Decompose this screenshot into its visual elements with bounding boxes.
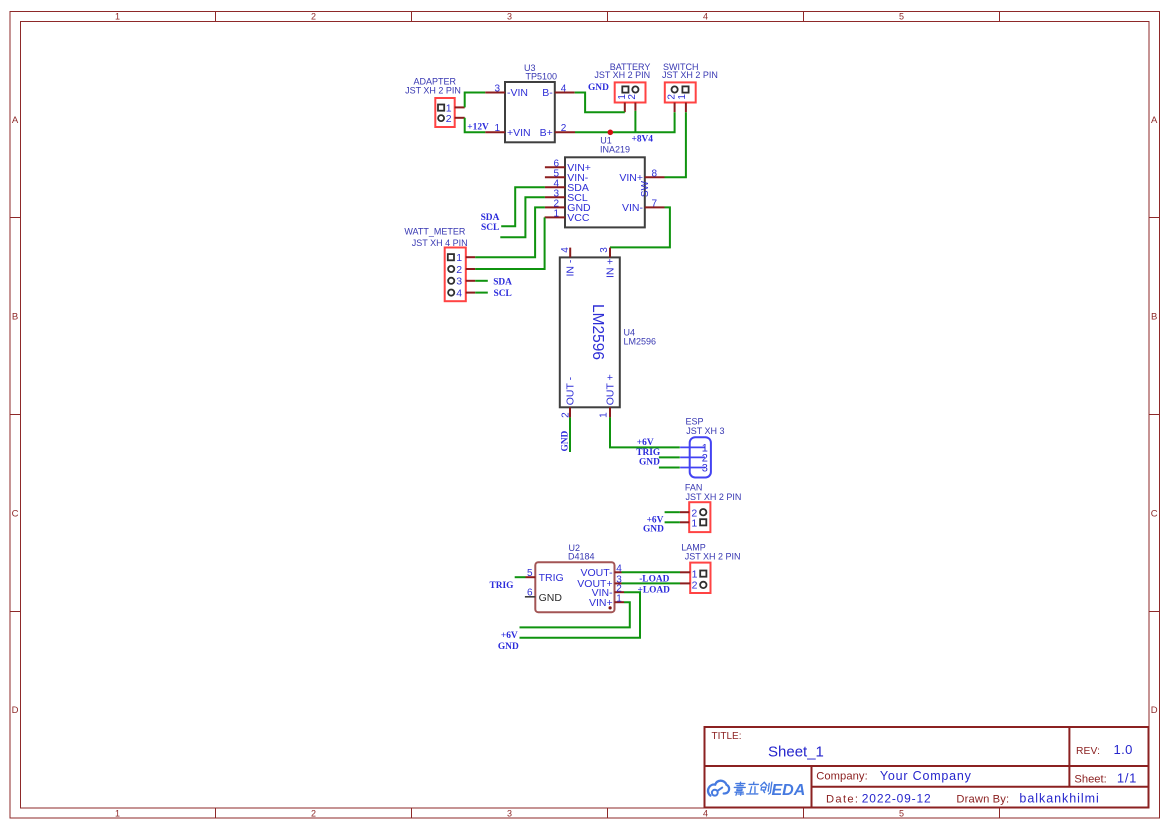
net label -LOAD	[639, 575, 669, 585]
LAMP pin 1 square	[692, 568, 707, 580]
ADAPTER pin 2 stub	[455, 117, 465, 119]
svg-text:JST XH 2 PIN: JST XH 2 PIN	[594, 70, 650, 80]
net label GND at ESP	[639, 458, 660, 468]
svg-text:-LOAD: -LOAD	[639, 575, 669, 585]
svg-text:GND: GND	[498, 642, 519, 652]
svg-text:Company:: Company:	[816, 771, 868, 783]
net label GND rail	[498, 642, 519, 652]
svg-text:3: 3	[599, 247, 610, 253]
ADAPTER pin 1 stub	[455, 106, 465, 108]
svg-text:Date:: Date:	[826, 794, 858, 806]
FAN pin 1 stub	[680, 521, 689, 523]
connector ESP JST XH 3	[686, 416, 725, 477]
svg-text:LM2596: LM2596	[624, 337, 657, 347]
svg-text:A: A	[12, 115, 19, 126]
BATTERY pin 2 stub	[634, 103, 636, 111]
net label SDA lower	[493, 277, 512, 287]
ADAPTER pin 2 circle	[438, 113, 452, 125]
BATTERY pin 2 circle	[627, 86, 638, 99]
wire +8V4 bus U3 B+ to SWITCH pin 2	[575, 112, 675, 132]
wire ADAPTER pin1 to U3 -VIN	[465, 93, 486, 108]
svg-text:8: 8	[652, 169, 658, 180]
ADAPTER pin 1 square	[438, 102, 452, 114]
svg-text:C: C	[12, 508, 19, 519]
U4 pin 1 OUT+	[599, 374, 617, 418]
svg-text:+6V: +6V	[637, 438, 654, 448]
wire WATT_METER pin 3 SDA	[475, 280, 488, 282]
svg-text:5: 5	[899, 808, 904, 818]
svg-text:+VIN: +VIN	[507, 127, 531, 139]
svg-text:B-: B-	[542, 87, 553, 99]
svg-text:+8V4: +8V4	[632, 135, 654, 145]
svg-text:2: 2	[311, 11, 316, 21]
svg-text:SCL: SCL	[481, 223, 499, 233]
svg-text:4: 4	[616, 564, 622, 575]
net label +6V at FAN	[647, 516, 664, 526]
svg-text:2: 2	[561, 123, 567, 134]
wire GND to ESP pin 3	[659, 467, 680, 469]
IC U1 INA219	[565, 136, 651, 228]
svg-text:JST XH 2 PIN: JST XH 2 PIN	[405, 86, 461, 96]
svg-text:2: 2	[692, 580, 698, 592]
svg-text:5: 5	[899, 11, 904, 21]
wire TRIG net to U2	[515, 576, 526, 578]
svg-text:1: 1	[553, 209, 559, 220]
BATTERY pin 1 square	[617, 86, 629, 99]
connector ADAPTER JST XH 2 PIN	[405, 77, 461, 127]
U3 pin 1 +VIN	[485, 123, 530, 139]
svg-text:IN -: IN -	[565, 259, 577, 276]
svg-text:1: 1	[616, 594, 622, 605]
SWITCH pin 2 stub	[674, 103, 676, 113]
svg-text:FAN: FAN	[685, 483, 703, 493]
svg-text:1: 1	[692, 568, 698, 580]
module U2 D4184	[535, 543, 614, 612]
FAN pin 2 circle	[691, 507, 706, 519]
connector FAN JST XH 2 PIN	[685, 483, 741, 532]
wire U4 OUT- GND	[569, 417, 571, 452]
SWITCH pin 2 circle	[666, 86, 677, 99]
FAN pin 2 stub	[680, 511, 689, 513]
svg-text:4: 4	[560, 247, 571, 253]
U2 pin 2 VIN-	[592, 584, 624, 600]
net label +6V at ESP	[637, 438, 654, 448]
svg-text:EDA: EDA	[772, 782, 806, 799]
svg-text:GND: GND	[561, 430, 571, 451]
wire U1 SDA to label	[501, 187, 545, 226]
svg-text:Sheet_1: Sheet_1	[768, 743, 824, 760]
svg-text:GND: GND	[539, 592, 563, 604]
svg-text:TRIG: TRIG	[539, 572, 564, 584]
IC U3 TP5100	[505, 63, 557, 142]
svg-text:C: C	[1151, 508, 1158, 519]
svg-text:ESP: ESP	[686, 416, 704, 426]
svg-text:4: 4	[561, 83, 567, 94]
U3 pin 4 B-	[542, 83, 574, 99]
U1 pin 5 VIN-	[545, 169, 589, 185]
net label SCL lower	[494, 289, 512, 299]
net label GND vertical	[561, 430, 571, 451]
U1 pin 2 GND	[545, 199, 591, 215]
svg-text:1: 1	[677, 94, 688, 100]
U2 pin 4 VOUT-	[581, 564, 623, 580]
svg-text:4: 4	[703, 808, 708, 818]
wire U1 SCL to label	[500, 197, 545, 237]
svg-text:TP5100: TP5100	[526, 72, 558, 82]
WATT_METER pin 3 circle	[448, 276, 462, 288]
svg-text:JST XH 2 PIN: JST XH 2 PIN	[685, 552, 741, 562]
U1 pin 7 VIN-	[622, 199, 665, 215]
U2 pin 5 TRIG	[526, 568, 564, 584]
WATT_METER pin 3 stub	[466, 280, 475, 282]
ESP pin 2	[680, 452, 708, 464]
svg-text:2: 2	[446, 113, 452, 125]
svg-text:VIN-: VIN-	[622, 202, 644, 214]
svg-text:REV:: REV:	[1076, 746, 1100, 757]
svg-text:4: 4	[703, 11, 708, 21]
net label +12V	[467, 122, 489, 132]
net label +8V4	[632, 135, 654, 145]
svg-text:OUT -: OUT -	[565, 376, 577, 405]
svg-text:6: 6	[527, 588, 533, 599]
wire U2 VOUT- to LAMP pin 1	[622, 571, 681, 573]
JLC EDA logo	[708, 781, 805, 799]
svg-text:1: 1	[456, 252, 462, 264]
svg-text:2: 2	[627, 94, 638, 100]
U4 pin 4 IN-	[560, 247, 577, 277]
svg-text:2: 2	[456, 264, 462, 276]
LAMP pin 2 stub	[680, 582, 690, 584]
U3 pin 2 B+	[540, 123, 575, 139]
net label GND	[588, 83, 609, 93]
U1 pin 3 SCL	[545, 189, 588, 205]
svg-text:balkankhilmi: balkankhilmi	[1019, 792, 1098, 806]
svg-text:A: A	[1151, 115, 1158, 126]
net label TRIG at ESP	[636, 448, 661, 458]
svg-text:1/1: 1/1	[1117, 770, 1137, 785]
svg-text:D: D	[1151, 705, 1158, 716]
svg-text:Drawn By:: Drawn By:	[956, 794, 1009, 806]
svg-text:5: 5	[527, 568, 533, 579]
BATTERY pin 1 stub	[624, 103, 626, 113]
U1 pin 8 VIN+	[619, 169, 664, 185]
svg-text:+6V: +6V	[501, 631, 518, 641]
wire SWITCH pin 1 to U1 VIN+	[665, 112, 686, 177]
wire U2 VIN+ to +6V rail	[520, 602, 630, 627]
wire WATT_METER pin 1 to U1 GND	[475, 207, 545, 257]
U3 pin 3 -VIN	[485, 83, 528, 99]
svg-text:IN +: IN +	[605, 258, 617, 278]
svg-text:OUT +: OUT +	[605, 374, 617, 405]
svg-text:1: 1	[691, 517, 697, 529]
WATT_METER pin 2 circle	[448, 264, 462, 276]
svg-text:+12V: +12V	[467, 122, 489, 132]
svg-text:JST XH 3: JST XH 3	[686, 426, 724, 436]
U2 pin 3 VOUT+	[577, 575, 622, 591]
connector BATTERY JST XH 2 PIN	[594, 62, 650, 103]
wire ADAPTER pin2 to U3 +VIN	[465, 118, 486, 133]
U1 pin 4 SDA	[545, 179, 589, 195]
svg-text:VIN+: VIN+	[619, 172, 643, 184]
U1 pin 1 VCC	[545, 209, 590, 225]
connector WATT_METER JST XH 4 PIN	[404, 227, 467, 302]
net label TRIG at U2	[490, 581, 515, 591]
SWITCH pin 1 stub	[685, 103, 687, 113]
wire U2 VOUT+ to LAMP pin 2	[622, 582, 681, 584]
svg-text:2: 2	[311, 808, 316, 818]
svg-text:3: 3	[456, 276, 462, 288]
svg-text:B: B	[1151, 311, 1157, 322]
IC U4 LM2596	[560, 257, 656, 407]
svg-text:JST XH 4 PIN: JST XH 4 PIN	[412, 238, 468, 248]
svg-text:SDA: SDA	[493, 277, 512, 287]
svg-text:-VIN: -VIN	[507, 87, 528, 99]
svg-text:TRIG: TRIG	[636, 448, 661, 458]
WATT_METER pin 1 square	[448, 252, 463, 264]
net label GND at FAN	[643, 525, 664, 535]
junction dot +8V4	[608, 130, 614, 136]
svg-text:GND: GND	[643, 525, 664, 535]
net label SCL	[481, 223, 499, 233]
SWITCH pin 1 square	[677, 86, 688, 99]
net label SDA	[481, 213, 500, 223]
svg-text:TRIG: TRIG	[490, 581, 515, 591]
U2 pin 1 VIN+	[589, 594, 624, 610]
connector SWITCH JST XH 2 PIN	[662, 62, 718, 103]
svg-text:Your Company: Your Company	[880, 769, 972, 783]
svg-text:JST XH 2 PIN: JST XH 2 PIN	[662, 70, 718, 80]
title block	[705, 727, 1149, 808]
svg-text:3: 3	[702, 463, 708, 475]
net label +LOAD	[638, 585, 671, 595]
WATT_METER pin 1 stub	[466, 256, 475, 258]
svg-text:3: 3	[507, 808, 512, 818]
svg-text:Sheet:: Sheet:	[1074, 773, 1106, 785]
wire WATT_METER pin 2 to U1 VCC	[475, 217, 544, 269]
svg-text:2: 2	[560, 412, 571, 418]
svg-text:7: 7	[652, 199, 658, 210]
LAMP pin 1 stub	[680, 571, 690, 573]
svg-text:1: 1	[599, 412, 610, 418]
svg-text:B+: B+	[540, 127, 553, 139]
svg-text:4: 4	[456, 288, 462, 300]
wire U4 OUT+ to ESP pin 1	[610, 417, 680, 447]
wire FAN pin 2	[665, 511, 680, 513]
connector LAMP JST XH 2 PIN	[681, 542, 740, 593]
LAMP pin 2 circle	[692, 580, 707, 592]
svg-text:2: 2	[666, 94, 677, 100]
svg-text:1: 1	[115, 11, 120, 21]
svg-text:GND: GND	[639, 458, 660, 468]
FAN pin 1 square	[691, 517, 706, 529]
svg-text:D4184: D4184	[568, 552, 595, 562]
svg-text:SCL: SCL	[494, 289, 512, 299]
svg-text:1.0: 1.0	[1114, 742, 1133, 757]
svg-text:JST XH 2 PIN: JST XH 2 PIN	[686, 492, 742, 502]
wire U2 VIN- to GND rail	[520, 592, 641, 638]
svg-text:3: 3	[507, 11, 512, 21]
svg-text:SDA: SDA	[481, 213, 500, 223]
WATT_METER pin 4 stub	[466, 292, 475, 294]
ESP pin 1	[680, 442, 708, 454]
wire U3 B- to BATTERY pin 1	[575, 93, 625, 113]
svg-text:B: B	[12, 311, 18, 322]
svg-text:GND: GND	[588, 83, 609, 93]
wire WATT_METER pin 4 SCL	[475, 292, 488, 294]
U1 pin 6 VIN+	[545, 159, 591, 175]
junction dot U2	[609, 606, 612, 609]
svg-text:VCC: VCC	[567, 212, 590, 224]
U4 pin 3 IN+	[599, 247, 617, 278]
WATT_METER pin 4 circle	[448, 288, 462, 300]
svg-text:1: 1	[494, 123, 500, 134]
wire BATTERY pin 2 to +8V4 bus	[634, 111, 636, 133]
wire FAN pin 1	[665, 521, 680, 523]
wire U1 VIN- to U4 IN+	[610, 207, 670, 247]
ESP pin 3	[680, 463, 708, 475]
U4 pin 2 OUT-	[560, 376, 576, 417]
svg-text:3: 3	[494, 83, 500, 94]
wire TRIG to ESP pin 2	[659, 456, 680, 458]
net label +6V rail	[501, 631, 518, 641]
WATT_METER pin 2 stub	[466, 268, 475, 270]
svg-text:+LOAD: +LOAD	[638, 585, 671, 595]
svg-text:2022-09-12: 2022-09-12	[862, 792, 931, 806]
svg-text:D: D	[12, 705, 19, 716]
svg-text:INA219: INA219	[600, 145, 630, 155]
svg-text:WATT_METER: WATT_METER	[404, 227, 465, 237]
svg-text:LM2596: LM2596	[589, 304, 606, 360]
svg-text:TITLE:: TITLE:	[712, 731, 742, 742]
U2 pin 6 GND	[525, 588, 562, 604]
svg-text:1: 1	[115, 808, 120, 818]
